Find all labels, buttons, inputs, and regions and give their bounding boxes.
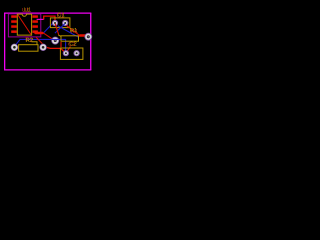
U1 pad 4 left [11, 30, 17, 33]
U1 pad 7 right [32, 20, 38, 23]
U1 pad 5 right [32, 30, 38, 33]
R1 yellow lead line [58, 35, 61, 37]
R2 body silkscreen [19, 45, 38, 52]
svg-text:R2: R2 [26, 38, 34, 44]
U1 pad 3 left [11, 25, 17, 28]
C1 pad 2 [62, 20, 68, 26]
U1 pad 6 right [32, 25, 38, 28]
blue trace R2 pad1 up [14, 40, 20, 47]
U1 courtyard box [8, 14, 40, 37]
red trace C1 pad1 down [55, 24, 59, 35]
red pad bar with via near U1 pad5 [34, 32, 44, 35]
R2 pad 1 [11, 44, 18, 51]
svg-text:C2: C2 [69, 42, 77, 48]
U1 body diagonal [18, 15, 31, 35]
svg-text:C1: C1 [57, 13, 65, 19]
red trace into R2 pad2 [36, 37, 42, 43]
red trace U1 to C1 pad1 [44, 16, 55, 23]
R2 pad 2 [39, 44, 46, 51]
red trace C2 pad1 up-right [66, 46, 70, 53]
U1 pad 8 right [32, 15, 38, 17]
C2 body silkscreen [60, 48, 83, 59]
board outline (keepout) [4, 13, 91, 70]
blue trace C1 area to right pad [58, 26, 79, 37]
svg-text:R1: R1 [70, 28, 78, 34]
C1 body silkscreen [50, 18, 70, 28]
blue trace via to C1 pad1 [44, 24, 53, 33]
C2 pad 1 [63, 50, 69, 56]
red trace R1 to C2 [60, 42, 62, 47]
C2 pad 2 [74, 50, 80, 56]
blue trace vertical to C2 pad1 [65, 39, 67, 52]
red trace R2 pad2 to C2 pad1 [47, 48, 66, 54]
R1 right pad [84, 33, 92, 41]
blue trace horizontal [20, 38, 66, 40]
red trace via to big pad [44, 33, 54, 40]
blue trace C1 pad2 down-left [55, 23, 65, 33]
background [0, 0, 101, 77]
U1 pad 1 left [11, 15, 17, 17]
big through-hole pad [51, 37, 59, 45]
red trace C1 pad2 to R1 bar [66, 25, 79, 35]
U1 body silkscreen [17, 14, 31, 35]
magenta trace stub at U1 right [37, 18, 44, 20]
R1 red bar trace [79, 34, 86, 37]
U1 pad 2 left [11, 20, 17, 23]
svg-text:U1: U1 [22, 8, 30, 14]
C1 pad 1 [52, 20, 58, 26]
R1 body silkscreen [61, 36, 79, 41]
R2 yellow lead line [32, 42, 38, 45]
